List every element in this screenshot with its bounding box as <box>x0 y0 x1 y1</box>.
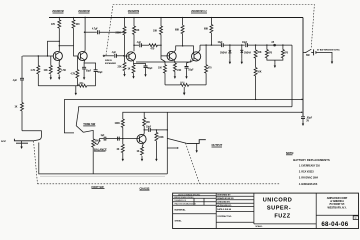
scale row line <box>254 223 316 225</box>
battery BT1 9V <box>312 48 340 58</box>
svg-text:1N34A: 1N34A <box>244 51 251 54</box>
label 2SC828TM x2 stage4-5 <box>191 11 207 13</box>
node 470 top <box>205 44 206 45</box>
rail junction dots <box>59 17 212 18</box>
svg-text:10K: 10K <box>44 70 49 72</box>
svg-text:10K: 10K <box>135 30 140 32</box>
resistor R10 10K bias Q4 <box>153 18 170 56</box>
svg-text:220K: 220K <box>116 32 122 34</box>
resistor R18 tone b <box>281 45 288 58</box>
wire Q3 emitter <box>132 60 134 62</box>
svg-text:1.5K: 1.5K <box>177 70 182 72</box>
resistor R20a feedback <box>31 66 40 86</box>
node Q3 collector tap <box>133 45 134 46</box>
wire R15 down <box>255 58 257 67</box>
wire V+ rail <box>49 17 303 19</box>
title block mini table lines <box>173 196 217 214</box>
svg-text:9V BATTERY(SEE NOTE): 9V BATTERY(SEE NOTE) <box>317 48 340 51</box>
ground D1 <box>229 59 231 64</box>
resistor R2 300 <box>72 18 80 29</box>
svg-text:SW: SW <box>306 55 311 57</box>
transistor Q6 <box>137 135 146 144</box>
svg-text:10µF: 10µF <box>218 42 224 44</box>
wire Q2 collector to rail <box>84 18 86 53</box>
svg-text:WESTBURY, N.Y.: WESTBURY, N.Y. <box>327 207 346 210</box>
diode D2 1N34A <box>240 45 251 59</box>
node tap <box>84 32 85 33</box>
resistor R4 Q1 emitter <box>58 66 67 74</box>
label BALANCE <box>94 147 107 151</box>
title block dividers <box>216 193 316 228</box>
wire tone top <box>247 44 292 46</box>
resistor R14 1.5K Q4 emitter <box>173 63 181 72</box>
node R5 base <box>124 32 125 33</box>
switch tone sw section B <box>103 55 114 56</box>
svg-text:3V: 3V <box>306 120 309 122</box>
svg-text:NOTE:: NOTE: <box>286 151 294 155</box>
resistor R23 10K <box>143 112 151 130</box>
dashed right diagonal <box>186 143 200 184</box>
svg-text:68K: 68K <box>175 30 180 32</box>
wire Q1 bias jog <box>48 41 60 56</box>
svg-text:FUZZ: FUZZ <box>274 213 290 219</box>
svg-text:68K: 68K <box>204 29 209 31</box>
svg-text:4K: 4K <box>117 148 120 151</box>
svg-text:INPUT: INPUT <box>1 141 7 143</box>
resistor R9 470 <box>149 44 157 51</box>
resistor R8 Q3 emitter <box>128 62 136 73</box>
wire Q1 base input <box>23 55 54 57</box>
capacitor C11 1uF <box>101 135 106 141</box>
dashed left diagonal <box>34 141 38 184</box>
wire jack sleeve stub <box>167 147 178 148</box>
transistor Q2 <box>78 51 87 60</box>
svg-text:1µF: 1µF <box>101 135 106 137</box>
connector tone <box>271 42 276 46</box>
capacitor C7 10uF Q5 emitter <box>185 67 195 72</box>
resistor R17 tone a <box>265 45 272 58</box>
label FOOT SW <box>92 185 105 189</box>
svg-text:470: 470 <box>151 48 156 51</box>
wiper expander arrow <box>183 87 186 95</box>
wire Q5 output top <box>200 44 221 46</box>
capacitor C9 10uF <box>242 42 248 47</box>
capacitor C12 <box>118 137 120 141</box>
resistor R16 10K <box>254 68 262 76</box>
svg-text:100K: 100K <box>158 137 164 139</box>
wire sw to pot <box>83 130 93 138</box>
svg-text:50µF: 50µF <box>147 68 153 70</box>
svg-text:50K: 50K <box>257 52 262 54</box>
svg-text:10µF: 10µF <box>146 126 152 128</box>
wire outer loop <box>64 98 302 100</box>
title block staff rows <box>217 195 234 218</box>
title block tiny header text <box>174 194 200 205</box>
wire Q6 emitter <box>142 143 144 147</box>
svg-text:50µF: 50µF <box>97 72 103 74</box>
wire bias return vertical <box>37 56 39 66</box>
svg-text:STEEL: STEEL <box>175 221 183 223</box>
label 2SC828TM stage3 <box>128 11 140 13</box>
wire C6 to R9 <box>141 44 149 46</box>
svg-text:BATTERY REPLACEMENTS: BATTERY REPLACEMENTS <box>293 158 330 162</box>
wire outer loop left drop <box>64 99 74 132</box>
label CHASIS <box>140 186 150 190</box>
wire tone join <box>267 58 283 63</box>
svg-text:CONTRACT NO.: CONTRACT NO. <box>217 215 232 218</box>
resistor R5a under Q2 base <box>71 57 79 86</box>
capacitor C13 10uF out <box>146 126 152 131</box>
resistor R22 100K <box>115 119 125 139</box>
node D2 <box>241 44 242 45</box>
svg-text:1K: 1K <box>128 69 131 71</box>
resistor R12 68K Q4 collector <box>175 18 184 46</box>
ground tone <box>274 63 276 68</box>
svg-text:MATERIAL: MATERIAL <box>175 208 187 211</box>
wire Q1 collector <box>58 28 60 51</box>
wire volume to lower loop <box>255 76 257 100</box>
ground R24 <box>141 156 143 161</box>
title block staff row lines <box>216 196 254 222</box>
svg-text:.05µF: .05µF <box>306 118 312 120</box>
resistor R19 1K input <box>15 103 42 141</box>
svg-text:10K: 10K <box>146 122 151 124</box>
svg-text:1K: 1K <box>137 151 140 153</box>
capacitor C filter .05 <box>301 117 313 123</box>
ground input jack <box>20 141 22 149</box>
svg-text:100: 100 <box>158 68 163 70</box>
svg-text:CHECKED BY:: CHECKED BY: <box>217 202 230 204</box>
node D1 <box>229 44 230 45</box>
transistor Q5 <box>192 52 201 61</box>
label OUTPUT <box>212 143 223 147</box>
svg-text:50KΩ: 50KΩ <box>180 81 185 84</box>
capacitor C6 .1uF <box>137 42 142 47</box>
svg-text:47K: 47K <box>51 23 56 26</box>
dashed chassis boundary <box>38 183 281 185</box>
node Q6 base <box>122 138 123 139</box>
resistor R6 10K collector Q3 <box>133 18 140 35</box>
wire Q5 collector lead <box>198 45 200 52</box>
node Q6 collector <box>144 129 145 130</box>
ground arrow C3 <box>83 75 85 80</box>
potentiometer VR1 50K balance <box>92 139 101 147</box>
wire Q4 collector lead <box>174 50 176 52</box>
ground arrow Q5 emitter <box>185 68 187 79</box>
jack J2 output <box>187 140 206 144</box>
svg-text:FOOT SW: FOOT SW <box>92 185 105 189</box>
svg-text:4.7K: 4.7K <box>71 73 76 76</box>
svg-text:4.7K: 4.7K <box>31 69 36 72</box>
label side b expander <box>105 60 117 65</box>
wire collector out <box>144 129 148 131</box>
ground R26 <box>155 156 157 161</box>
node rail out <box>167 129 168 130</box>
small letter box <box>353 216 358 220</box>
wire Q6 collector <box>143 130 146 135</box>
svg-text:47Ω: 47Ω <box>79 82 84 85</box>
resistor R25 base to gnd <box>117 139 125 156</box>
node bias <box>59 41 60 42</box>
svg-text:DRAWN BY:AT.GD: DRAWN BY:AT.GD <box>217 197 234 200</box>
resistor R24 1K emitter <box>137 147 144 155</box>
resistor R7 bias under Q3 base <box>118 56 127 71</box>
node coupling join <box>160 45 161 46</box>
label 2SC828TM stage1 <box>52 11 64 13</box>
svg-text:50KΩ: 50KΩ <box>95 140 101 143</box>
wire tone right drop <box>291 45 293 107</box>
svg-text:.1µF: .1µF <box>112 52 117 54</box>
svg-text:300: 300 <box>76 24 81 26</box>
wire Q3 collector <box>133 34 135 51</box>
wire emitter tap <box>84 63 96 70</box>
company name <box>327 197 348 209</box>
wire Q4 emitter <box>174 60 175 63</box>
ground filter cap <box>302 118 304 126</box>
svg-text:BALANCE: BALANCE <box>94 147 107 151</box>
svg-text:10µF: 10µF <box>188 70 194 72</box>
switch SW power <box>303 49 312 57</box>
wire C13 to node <box>150 129 167 131</box>
node tone b <box>282 44 283 45</box>
resistor R15a 470 right edge <box>205 45 213 85</box>
switch tone sw lever <box>76 126 83 133</box>
resistor R11 100 ohm <box>158 56 167 85</box>
node Q2 collector rail <box>84 17 85 18</box>
ground arrow Q4 emitter <box>174 71 176 79</box>
svg-text:TOLERANCES ON: TOLERANCES ON <box>174 199 186 202</box>
svg-text:DATE:5 JUN 68: DATE:5 JUN 68 <box>217 208 231 211</box>
transistor Q4 <box>167 51 176 60</box>
wire cap to base <box>106 138 140 140</box>
transistor Q1 <box>53 51 62 60</box>
svg-text:22K: 22K <box>118 67 123 69</box>
node bias return <box>38 55 39 56</box>
wire cross couple <box>176 46 194 54</box>
diode D1 1N34A <box>220 45 231 59</box>
node coupling <box>59 45 60 46</box>
jack J1 input <box>1 139 34 144</box>
svg-text:FRACTIONS DECIMALS ANGLE: FRACTIONS DECIMALS ANGLES <box>175 203 197 206</box>
wire Q5 emitter <box>187 60 195 66</box>
ground output jack <box>196 143 198 153</box>
wire C8 to diodes <box>223 44 245 46</box>
svg-text:SIDE B: SIDE B <box>105 60 112 62</box>
dashed switch gang linkage <box>106 5 314 56</box>
svg-text:2. RCA VS323: 2. RCA VS323 <box>299 171 314 174</box>
svg-text:1N34A: 1N34A <box>220 51 227 54</box>
ground R8 <box>132 73 134 78</box>
resistor R26 100K out <box>155 130 164 156</box>
transistor Q3 <box>126 52 135 61</box>
wire sw b to Q3 base <box>116 55 124 56</box>
capacitor C3 Q2 emitter bypass <box>82 60 92 75</box>
wire Q2 collector tap <box>85 31 97 33</box>
ground D2 <box>241 59 243 64</box>
note title <box>286 151 294 155</box>
wire Q6 rail <box>123 112 302 174</box>
wire wiper to cap <box>98 139 104 145</box>
wire rail right drop to filter <box>302 18 304 117</box>
svg-text:10K: 10K <box>257 72 262 74</box>
wire R2 to base <box>73 28 75 46</box>
node base Q1 <box>47 55 48 56</box>
wire Q1 emitter drop <box>58 60 61 66</box>
wire Q1-Q2 coupling <box>59 46 78 56</box>
svg-text:4.7µF: 4.7µF <box>92 28 98 31</box>
svg-text:10K: 10K <box>153 31 158 33</box>
capacitor C1 .1uF input <box>13 78 25 102</box>
svg-text:68-04-06: 68-04-06 <box>321 221 348 228</box>
node tone a <box>266 44 267 45</box>
node volume tap <box>255 44 256 45</box>
ground battery <box>331 59 333 64</box>
svg-text:UNLESS OTHERWISE SPECIFIED: UNLESS OTHERWISE SPECIFIED <box>178 194 200 196</box>
chassis outline big <box>39 143 168 174</box>
svg-text:470: 470 <box>284 52 289 55</box>
label TONE SW <box>83 122 96 126</box>
svg-text:1. EVERREADY 216: 1. EVERREADY 216 <box>299 165 321 168</box>
ground bus arrow <box>75 86 77 96</box>
svg-text:470: 470 <box>268 52 273 55</box>
node Q5 load join <box>211 44 212 45</box>
node outer loop right <box>301 99 302 100</box>
title block frame <box>173 193 359 228</box>
svg-text:C: C <box>355 216 357 220</box>
chassis outline shadow <box>40 175 165 177</box>
svg-text:470: 470 <box>208 67 213 70</box>
svg-text:DESIGNED BY:: DESIGNED BY: <box>217 195 231 197</box>
label 2SC828TM stage2 <box>78 11 90 13</box>
svg-text:3. RAYOVAC 1604: 3. RAYOVAC 1604 <box>299 177 319 180</box>
ground R4 <box>58 75 60 80</box>
ground R25 <box>122 156 124 161</box>
wire bias return bus <box>38 85 78 87</box>
svg-text:.1µF: .1µF <box>13 80 18 82</box>
svg-text:50µF: 50µF <box>86 71 92 73</box>
wire collector tap <box>134 44 139 46</box>
node volume loop <box>255 99 256 100</box>
node q6 rail right <box>301 112 302 113</box>
resistor R5 220K <box>116 18 127 35</box>
number cell top line <box>316 214 358 216</box>
ground R3 <box>50 75 52 80</box>
capacitor C4b .1uF <box>112 52 117 58</box>
capacitor C5 Q3 emitter <box>134 64 154 72</box>
svg-text:SCALE:: SCALE: <box>255 225 262 228</box>
svg-text:CHASIS: CHASIS <box>140 186 150 190</box>
wire pot bottom <box>92 147 94 174</box>
resistor R13 68K Q5 collector <box>204 18 213 46</box>
wire out stub <box>167 138 186 143</box>
svg-text:.1µF: .1µF <box>137 42 142 44</box>
svg-text:10µF: 10µF <box>242 42 248 44</box>
capacitor C8 10uF <box>218 42 224 47</box>
capacitor C3b <box>94 70 104 86</box>
node cross <box>182 45 183 46</box>
resistor R20 47 ohm <box>78 82 95 87</box>
svg-text:OUTPUT: OUTPUT <box>212 143 223 147</box>
resistor R3 under Q1 base <box>44 56 53 74</box>
ground C5 <box>144 72 146 77</box>
ground R7 <box>123 71 125 76</box>
svg-text:4. BURGESS 2U6: 4. BURGESS 2U6 <box>299 183 318 186</box>
svg-text:SUPER-: SUPER- <box>267 206 291 212</box>
capacitor C4 coupling 4.7uF <box>92 28 99 35</box>
resistor R1 47K <box>51 18 61 29</box>
wire C4 to Q3 base <box>99 32 129 56</box>
svg-text:1K: 1K <box>15 107 18 109</box>
wire middle loop <box>76 107 292 126</box>
svg-text:APPROVED BY:: APPROVED BY: <box>217 204 232 207</box>
wire R9 to Q4 base line <box>157 44 161 46</box>
resistor R15 50K <box>254 45 262 58</box>
potentiometer VR2 50K expander <box>165 81 206 86</box>
svg-text:100K: 100K <box>115 123 121 125</box>
wire input vertical <box>21 56 23 78</box>
svg-text:1.5K: 1.5K <box>61 70 66 72</box>
node out <box>156 129 157 130</box>
wire Q5 base link <box>136 60 191 63</box>
svg-text:EXPANDER: EXPANDER <box>105 62 117 65</box>
svg-text:UNICORD: UNICORD <box>263 198 293 204</box>
